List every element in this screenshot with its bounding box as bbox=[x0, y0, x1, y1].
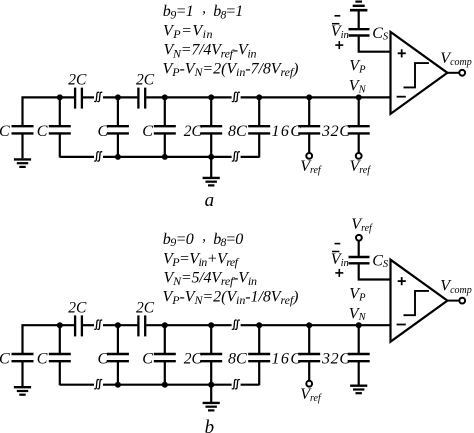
wire: C3 b top bbox=[117, 325, 119, 354]
svg-text:b: b bbox=[205, 417, 215, 433]
svg-text:,: , bbox=[202, 228, 206, 244]
capacitor 2C series #2 bbox=[138, 88, 145, 109]
junction dot C4 top bbox=[162, 94, 168, 100]
wire: top ground to CS bbox=[358, 10, 360, 29]
junction dot 2C bottom bbox=[208, 154, 214, 160]
junction dot C3 b top bbox=[115, 322, 121, 328]
capacitor C1 b bbox=[12, 354, 34, 361]
terminal Vcomp output bbox=[459, 70, 465, 76]
wire: C2 b bottom bbox=[59, 362, 61, 386]
svg-text:VP-VN=2(Vin-1/8Vref): VP-VN=2(Vin-1/8Vref) bbox=[163, 288, 299, 307]
wire: 8C bottom to rail corner bbox=[258, 134, 260, 158]
svg-text:C: C bbox=[98, 351, 109, 368]
wire: stub to ground mid bbox=[210, 157, 212, 177]
junction dot C3 top bbox=[115, 94, 121, 100]
wire: top rail segment 3 (break to 2C#2 left plate) bbox=[103, 96, 137, 98]
junction dot C2 top bbox=[57, 94, 63, 100]
junction dot 16C b top bbox=[306, 322, 312, 328]
terminal Vref under 16C b bbox=[306, 381, 312, 387]
wire: comparator output bbox=[447, 72, 459, 74]
wire: C4 top bbox=[164, 97, 166, 126]
capacitor 2C shunt bbox=[200, 126, 222, 133]
wire: C4 b top bbox=[164, 325, 166, 354]
plus sign at comparator input b bbox=[398, 277, 406, 285]
svg-text:b9=1: b9=1 bbox=[163, 3, 194, 21]
wire: stub to ground mid b bbox=[210, 385, 212, 402]
wire: 8C b top bbox=[258, 325, 260, 354]
hysteresis symbol inside comparator bbox=[404, 63, 429, 87]
capacitor C2 bbox=[49, 126, 71, 133]
wire: 2C shunt b top bbox=[210, 325, 212, 354]
junction dot C3 b bottom bbox=[115, 382, 121, 388]
wire: CS bottom to comparator non-inverting input, node VP bbox=[359, 36, 391, 52]
svg-text:2C: 2C bbox=[184, 123, 203, 140]
svg-text:32C: 32C bbox=[321, 351, 350, 368]
svg-text:2C: 2C bbox=[136, 299, 155, 316]
capacitor C4 bbox=[154, 126, 176, 133]
wire: top rail segment 2 b bbox=[83, 324, 94, 326]
capacitor C3 b bbox=[107, 354, 129, 361]
wire: top rail segment 4 b bbox=[146, 324, 231, 326]
capacitor 2C series #2 b bbox=[138, 315, 145, 336]
label minus above Vin bbox=[335, 15, 341, 17]
label plus below Vin b bbox=[335, 269, 343, 277]
wire: bottom rail segment 2 b bbox=[103, 384, 232, 386]
wire: comparator output b bbox=[447, 300, 459, 302]
wire: 16C bottom to terminal bbox=[308, 134, 310, 153]
wire: bottom rail segment 2 (break to second break) bbox=[103, 156, 232, 158]
junction dot node VN b bbox=[356, 322, 362, 328]
hysteresis symbol inside comparator b bbox=[404, 291, 429, 315]
capacitor 2C shunt b bbox=[200, 354, 222, 361]
svg-text:C: C bbox=[37, 351, 48, 368]
wire: bottom rail segment 1 b bbox=[60, 384, 94, 386]
wire: C2 bottom to bottom rail bbox=[59, 134, 61, 158]
capacitor CS b (sampling) bbox=[349, 257, 370, 263]
capacitor C2 b bbox=[49, 354, 71, 361]
wire: bottom rail segment 3 (second break to 8C) bbox=[241, 156, 260, 158]
wire: 2C shunt top bbox=[210, 97, 212, 126]
junction dot C2 b top bbox=[57, 322, 63, 328]
svg-text:8C: 8C bbox=[228, 351, 247, 368]
break symbol bottom rail left b bbox=[94, 380, 102, 389]
wire: bottom rail segment 1 (C2 to break) bbox=[60, 156, 94, 158]
svg-text:VP-VN=2(Vin-7/8Vref): VP-VN=2(Vin-7/8Vref) bbox=[163, 61, 299, 80]
capacitor C1 bbox=[12, 126, 34, 133]
capacitor 2C series #1 b bbox=[75, 315, 82, 336]
terminal Vref under 32C bbox=[356, 153, 362, 159]
capacitor 8C bbox=[248, 126, 270, 133]
break symbol top rail right bbox=[232, 92, 240, 101]
wire: 8C top bbox=[258, 97, 260, 126]
junction dot 2C top bbox=[208, 94, 214, 100]
wire: Vref terminal to CS b bbox=[358, 241, 360, 257]
wire: top rail segment 3 b bbox=[103, 324, 137, 326]
capacitor C4 b bbox=[154, 354, 176, 361]
ground mid circuit a bbox=[203, 178, 220, 186]
wire: C2 top bbox=[59, 97, 61, 126]
capacitor 8C b bbox=[248, 354, 270, 361]
break symbol top rail left b bbox=[94, 320, 102, 329]
junction dot 2C b top bbox=[208, 322, 214, 328]
capacitor CS (sampling) bbox=[349, 29, 370, 35]
label plus below Vin bbox=[335, 41, 343, 49]
wire: 2C shunt bottom bbox=[210, 134, 212, 157]
junction dot node VN bbox=[356, 94, 362, 100]
wire: 32C bottom to terminal bbox=[358, 134, 360, 153]
wire: bottom rail segment 3 b bbox=[241, 384, 260, 386]
svg-text:2C: 2C bbox=[184, 351, 203, 368]
svg-text:32C: 32C bbox=[321, 123, 350, 140]
junction dot C4 bottom bbox=[162, 154, 168, 160]
capacitor 32C bbox=[348, 126, 370, 133]
break symbol bottom rail right bbox=[232, 152, 240, 161]
minus sign at comparator input bbox=[397, 96, 406, 98]
wire: C3 bottom bbox=[117, 134, 119, 157]
svg-text:16C: 16C bbox=[272, 123, 302, 140]
wire: 32C b top bbox=[358, 325, 360, 354]
minus sign at comparator input b bbox=[397, 324, 406, 326]
capacitor 2C series #1 bbox=[75, 88, 82, 109]
break symbol top rail right b bbox=[232, 320, 240, 329]
junction dot 2C b bottom bbox=[208, 382, 214, 388]
wire: C4 b bottom bbox=[164, 362, 166, 385]
wire: 8C b bottom bbox=[258, 362, 260, 386]
svg-text:b9=0: b9=0 bbox=[163, 231, 194, 249]
capacitor C3 bbox=[107, 126, 129, 133]
wire: 32C b bottom to ground bbox=[358, 362, 360, 385]
wire: 16C top bbox=[308, 97, 310, 126]
break symbol bottom rail right b bbox=[232, 380, 240, 389]
ground below C1 bbox=[14, 159, 31, 167]
wire: top rail segment 1 b (C1 to series cap 2C#1) bbox=[23, 325, 75, 353]
svg-text:2C: 2C bbox=[68, 299, 87, 316]
ground below C1 b bbox=[14, 387, 31, 395]
op-amp comparator U1 bbox=[391, 32, 448, 114]
wire: C2 b top bbox=[59, 325, 61, 354]
label minus above Vin b bbox=[335, 243, 341, 245]
junction dot 8C b top bbox=[256, 322, 262, 328]
capacitor 16C bbox=[298, 126, 320, 133]
ground below 32C b bbox=[350, 386, 367, 394]
svg-text:16C: 16C bbox=[272, 351, 302, 368]
svg-text:8C: 8C bbox=[228, 123, 247, 140]
junction dot C3 bottom bbox=[115, 154, 121, 160]
label Vin with overbar bbox=[332, 23, 339, 25]
wire: 2C shunt b bottom bbox=[210, 362, 212, 385]
svg-text:b8=0: b8=0 bbox=[213, 231, 243, 249]
svg-text:C: C bbox=[37, 123, 48, 140]
svg-text:C: C bbox=[142, 351, 153, 368]
svg-text:C: C bbox=[98, 123, 109, 140]
wire: top rail segment 5 (second break to comparator inverting input, node VN) bbox=[241, 96, 391, 98]
svg-text:C: C bbox=[0, 123, 10, 140]
svg-text:2C: 2C bbox=[68, 72, 87, 89]
label Vin with overbar b bbox=[332, 251, 339, 253]
wire: C3 top bbox=[117, 97, 119, 126]
terminal Vref above CS b bbox=[356, 235, 362, 241]
wire: 32C top bbox=[358, 97, 360, 126]
svg-text:2C: 2C bbox=[136, 72, 155, 89]
ground flipped above sampling cap CS bbox=[350, 2, 367, 11]
op-amp comparator U2 bbox=[391, 260, 448, 342]
terminal Vcomp output b bbox=[459, 298, 465, 304]
junction dot C4 b bottom bbox=[162, 382, 168, 388]
wire: 16C b bottom to terminal bbox=[308, 362, 310, 381]
wire: top rail segment 5 b (node VN to comparator) bbox=[241, 324, 391, 326]
junction dot C4 b top bbox=[162, 322, 168, 328]
wire: C1 b bottom to ground bbox=[21, 362, 23, 386]
svg-text:C: C bbox=[0, 351, 10, 368]
ground mid circuit b bbox=[203, 403, 220, 411]
wire: top rail segment 4 (2C#2 right plate to second break) bbox=[146, 96, 231, 98]
break symbol top rail left bbox=[94, 92, 102, 101]
break symbol bottom rail left bbox=[94, 152, 102, 161]
wire: top rail segment 1 (C1 to series cap 2C#1) bbox=[23, 97, 75, 125]
plus sign at comparator input bbox=[398, 49, 406, 57]
terminal Vref under 16C bbox=[306, 153, 312, 159]
wire: CS b bottom to comparator non-inverting input, node VP b bbox=[359, 263, 391, 279]
svg-text:C: C bbox=[142, 123, 153, 140]
svg-text:,: , bbox=[202, 1, 206, 17]
wire: top rail segment 2 (2C#1 right plate to break) bbox=[83, 96, 94, 98]
wire: C1 bottom to ground bbox=[21, 134, 23, 158]
wire: C3 b bottom bbox=[117, 362, 119, 385]
capacitor 32C b bbox=[348, 354, 370, 361]
wire: C4 bottom bbox=[164, 134, 166, 157]
svg-text:a: a bbox=[205, 190, 215, 211]
wire: 16C b top bbox=[308, 325, 310, 354]
capacitor 16C b bbox=[298, 354, 320, 361]
junction dot 16C top bbox=[306, 94, 312, 100]
svg-text:b8=1: b8=1 bbox=[213, 3, 243, 21]
junction dot 8C top bbox=[256, 94, 262, 100]
